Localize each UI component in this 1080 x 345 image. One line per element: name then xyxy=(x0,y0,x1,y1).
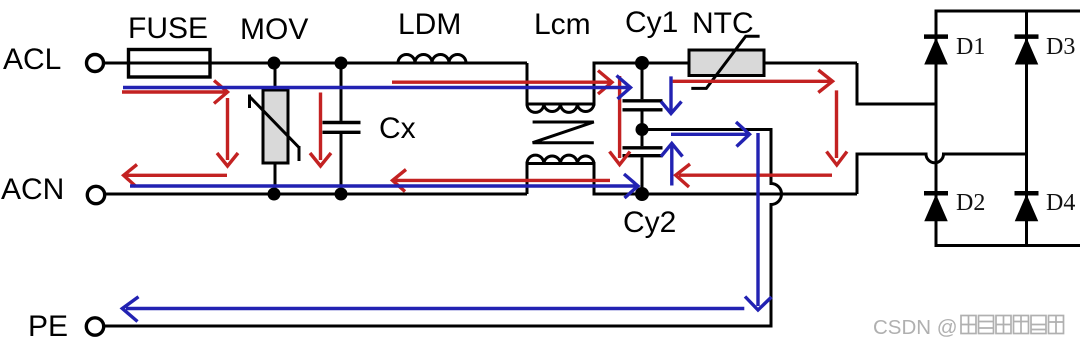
blue arrow in on ACN xyxy=(130,174,638,198)
wire ACN step up to bridge with dip under left rail xyxy=(857,154,1027,194)
wire ACL top: terminal to LDM to Lcm step xyxy=(104,62,528,65)
blue arrow up into Cy2 xyxy=(661,143,683,185)
capacitor Cx stem top xyxy=(340,63,343,121)
svg-text:Cy2: Cy2 xyxy=(623,206,676,239)
bridge bottom rail xyxy=(935,244,1080,247)
svg-text:Cx: Cx xyxy=(379,112,416,145)
capacitor Cy1 stem top xyxy=(641,63,644,99)
choke Lcm bottom winding xyxy=(527,155,594,163)
svg-text:PE: PE xyxy=(28,310,68,343)
svg-text:Cy1: Cy1 xyxy=(625,6,678,39)
red arrow down to bridge xyxy=(827,90,848,165)
varistor MOV stem top xyxy=(274,63,277,90)
blue arrow in on ACL xyxy=(123,76,631,100)
svg-text:FUSE: FUSE xyxy=(128,12,208,45)
svg-text:ACN: ACN xyxy=(1,173,64,206)
wire Lcm bottom step up xyxy=(527,164,857,195)
red arrow down through Cy branch xyxy=(610,76,631,165)
varistor MOV stem bottom xyxy=(274,163,277,194)
junction dot top Cy1 xyxy=(635,56,649,70)
svg-text:LDM: LDM xyxy=(398,8,461,41)
red arrow down through MOV xyxy=(217,98,238,166)
thermistor NTC body xyxy=(689,50,764,76)
wire ACN: terminal to Lcm xyxy=(105,193,527,196)
inductor LDM coil xyxy=(398,55,466,64)
svg-text:D2: D2 xyxy=(956,190,985,216)
svg-text:MOV: MOV xyxy=(240,13,308,46)
junction dot Cy midpoint xyxy=(636,123,649,136)
junction dot bottom Cy2 xyxy=(635,187,649,201)
capacitor Cx plates xyxy=(323,123,361,133)
bridge top rail xyxy=(935,10,1080,13)
junction dot top Cx xyxy=(335,57,348,70)
diode D1 xyxy=(924,37,948,64)
choke Lcm top winding xyxy=(527,104,594,112)
terminal ACN xyxy=(87,186,104,203)
capacitor Cy2 plates xyxy=(623,148,663,156)
watermark CJK glyph marks xyxy=(961,316,1064,334)
red arrow forward through NTC xyxy=(673,70,833,93)
blue arrow down into Cy1 xyxy=(661,76,682,113)
wire Lcm top step down xyxy=(527,63,857,104)
red arrow in on ACL xyxy=(122,81,228,104)
wire ACL step down to bridge xyxy=(857,63,936,104)
choke Lcm core xyxy=(533,122,594,143)
blue arrow down to PE xyxy=(745,133,772,310)
red arrow down through Cx xyxy=(310,93,331,167)
diode D3 xyxy=(1015,37,1039,64)
svg-text:CSDN @: CSDN @ xyxy=(873,316,958,339)
red arrow return left on ACN mid xyxy=(393,170,611,192)
capacitor Cy2 stem bottom xyxy=(641,157,644,194)
red arrow return left on ACN front xyxy=(124,165,227,187)
diode D4 xyxy=(1015,193,1039,220)
junction dot bottom MOV xyxy=(268,188,281,201)
diode D2 xyxy=(924,193,948,220)
terminal ACL xyxy=(87,55,104,72)
svg-text:D3: D3 xyxy=(1046,34,1075,60)
svg-text:ACL: ACL xyxy=(3,43,61,76)
blue arrow out on PE xyxy=(122,297,744,322)
capacitor Cy1 stem bottom xyxy=(641,111,644,129)
varistor MOV body xyxy=(263,90,288,163)
svg-text:NTC: NTC xyxy=(692,7,754,40)
bridge right rail xyxy=(1025,11,1028,246)
varistor MOV diagonal xyxy=(250,95,300,162)
capacitor Cy2 stem top xyxy=(641,130,644,147)
capacitor Cy1 plates xyxy=(623,101,663,110)
terminal PE xyxy=(86,318,103,335)
svg-text:D1: D1 xyxy=(956,34,985,60)
red arrow return from bridge xyxy=(676,164,832,187)
blue arrow out of Cy midpoint xyxy=(671,122,750,147)
svg-text:Lcm: Lcm xyxy=(534,8,591,41)
fuse F1 xyxy=(129,50,211,78)
wire Cy midpoint to PE drop with hop over ACN xyxy=(105,130,782,327)
red arrow forward through LDM Lcm xyxy=(392,71,612,95)
capacitor Cx stem bottom xyxy=(340,134,343,194)
bridge left rail xyxy=(935,11,938,246)
junction dot bottom Cx xyxy=(335,188,348,201)
junction dot top MOV xyxy=(268,57,281,70)
svg-text:D4: D4 xyxy=(1046,190,1075,216)
thermistor NTC diagonal xyxy=(691,36,759,88)
